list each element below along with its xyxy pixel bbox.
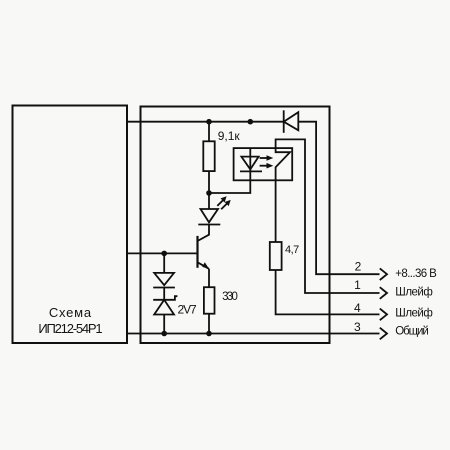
opto LED wire <box>249 148 251 180</box>
wire middle net to base <box>127 252 198 254</box>
resistor R1 9,1k body <box>203 141 214 171</box>
resistor R1 9,1k leads <box>208 122 210 142</box>
LED light arrow 2 <box>221 200 231 209</box>
module box <box>141 107 330 344</box>
diode VD1 cathode bar <box>283 110 285 133</box>
svg-text:ИП212-54Р1: ИП212-54Р1 <box>38 321 102 336</box>
LED HL1 wire from junction <box>208 193 210 209</box>
junction dot mid <box>206 190 212 196</box>
wire bottom net / pin 3 <box>127 333 380 335</box>
svg-text:Шлейф: Шлейф <box>395 308 433 320</box>
opto light arrow 2 <box>260 163 274 169</box>
LED light arrow 1 <box>217 196 226 206</box>
wire R3 to pin 4 <box>276 270 380 314</box>
resistor R2 330 body <box>204 287 215 314</box>
svg-text:2V7: 2V7 <box>178 302 198 316</box>
pin 4 arrow <box>380 309 387 321</box>
svg-text:3: 3 <box>354 320 361 334</box>
svg-text:Схема: Схема <box>49 305 92 320</box>
wire VD3 to bottom <box>163 315 165 334</box>
wire mid to opto LED <box>209 180 250 193</box>
wire diode to pin 2 <box>298 122 379 275</box>
svg-text:4,7: 4,7 <box>285 244 299 256</box>
svg-text:9,1к: 9,1к <box>218 129 241 143</box>
wire R2 to bottom <box>208 314 210 334</box>
diode VD1 triangle <box>284 112 299 130</box>
resistor R3 4,7 body <box>270 242 282 270</box>
transistor VT1 collector <box>198 225 210 241</box>
pin 1 arrow <box>380 287 387 299</box>
opto emitter wire down to R3 <box>275 180 277 242</box>
wire VD2 to VD3 <box>163 288 165 300</box>
opto phototransistor <box>276 148 290 180</box>
zener string wire top <box>163 253 165 273</box>
diode VD2 triangle <box>154 273 174 285</box>
junction dot zener bottom <box>161 331 167 337</box>
transistor VT1 base bar <box>196 236 198 268</box>
zener VD3 cathode bar with hook <box>153 296 177 300</box>
wire emitter to R2 <box>208 269 210 287</box>
svg-text:Шлейф: Шлейф <box>395 286 433 298</box>
LED HL1 triangle <box>201 209 219 222</box>
pin 3 arrow <box>380 328 387 340</box>
transistor VT1 emitter <box>198 262 210 269</box>
junction dot top-R1 <box>206 119 212 125</box>
wire top net <box>127 121 284 123</box>
diode VD2 cathode bar <box>153 287 175 289</box>
opto LED cathode bar <box>240 170 262 172</box>
junction dot R2 bottom <box>206 331 212 337</box>
svg-text:330: 330 <box>222 291 238 303</box>
opto light arrow 1 <box>260 155 274 161</box>
svg-text:Общий: Общий <box>395 325 429 337</box>
optocoupler U1 box <box>234 148 293 180</box>
LED HL1 cathode bar <box>198 224 220 226</box>
left box Схема ИП212-54Р1 <box>13 106 128 344</box>
opto collector wire to pin 1 <box>276 139 380 293</box>
svg-text:+8...36 В: +8...36 В <box>395 268 437 280</box>
junction dot top-opto <box>248 119 254 125</box>
pin 2 arrow <box>380 268 387 280</box>
junction dot zener top <box>161 251 167 257</box>
svg-text:2: 2 <box>355 260 362 274</box>
svg-text:4: 4 <box>354 301 361 315</box>
svg-text:1: 1 <box>354 278 361 292</box>
zener VD3 triangle <box>154 300 174 315</box>
opto LED triangle <box>241 157 258 170</box>
